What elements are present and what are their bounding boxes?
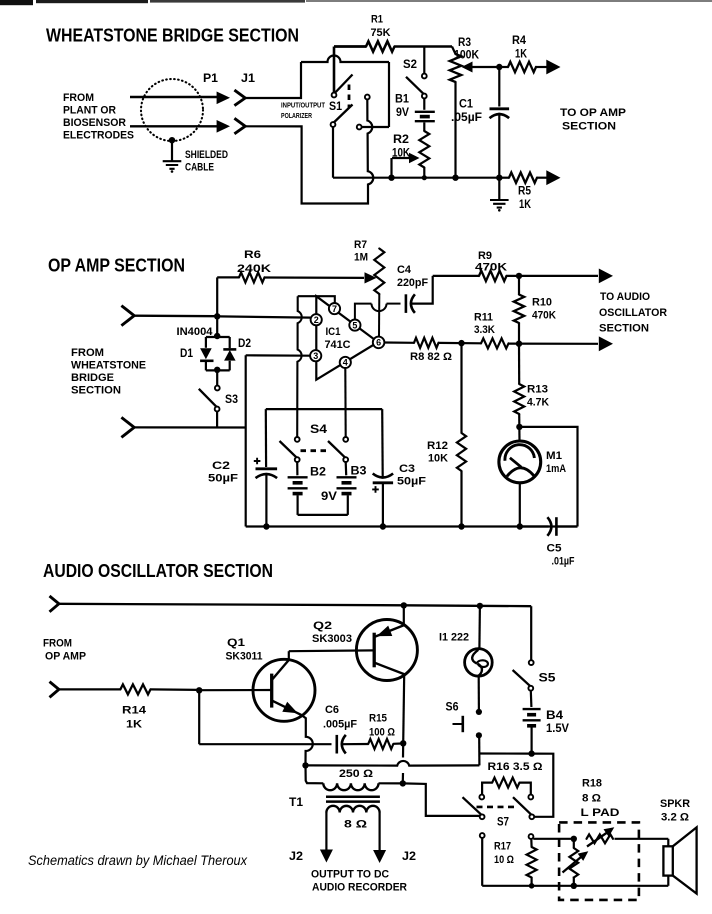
svg-text:R17: R17 <box>494 841 511 853</box>
wire R2 wiper to rail <box>390 158 392 176</box>
wire R3 bottom <box>454 82 456 178</box>
junction L pad bottom <box>571 883 577 889</box>
wire Q2 collector down <box>403 674 404 743</box>
svg-text:J1: J1 <box>241 73 256 85</box>
junction C3 rail <box>380 523 386 529</box>
resistor R15 100ohm <box>368 739 393 749</box>
wire polarizer top horiz with hop <box>301 56 389 63</box>
resistor R6 240K <box>239 272 265 282</box>
label R7 1M <box>354 239 368 264</box>
wire Q1 emitter drop <box>302 715 313 763</box>
capacitor C6 .005uF <box>337 735 346 754</box>
svg-text:1K: 1K <box>515 49 528 61</box>
svg-text:10K: 10K <box>392 148 411 160</box>
switch S1 pole1 <box>332 75 353 98</box>
wire Q2 col to T1 <box>402 743 405 781</box>
switch S3 <box>199 389 220 412</box>
wire pin4 drop <box>344 368 347 437</box>
label S5 <box>539 673 557 685</box>
battery B1 9V <box>415 112 435 121</box>
wire R16 right lead <box>520 783 531 795</box>
jack J1 lower contact <box>234 118 245 134</box>
label R11 3.3K <box>474 312 495 337</box>
resistor R9 470K <box>479 271 507 281</box>
wire pin5 riser <box>355 304 372 320</box>
svg-text:Schematics drawn by Michael Th: Schematics drawn by Michael Theroux <box>28 853 248 869</box>
label S3 <box>225 394 238 406</box>
wire upper jack to polarizer box <box>245 62 301 98</box>
svg-text:240K: 240K <box>237 263 271 275</box>
wire B2 bottom <box>297 495 299 515</box>
wire C3 top <box>381 409 384 476</box>
label R17 10ohm <box>494 841 514 867</box>
wire to R5 <box>499 177 509 179</box>
wire lamp bottom <box>478 676 480 709</box>
wire R13 top <box>518 344 520 384</box>
label D2 <box>238 338 251 350</box>
svg-text:R9: R9 <box>478 250 492 262</box>
label I1 222 <box>439 632 469 644</box>
battery bracket <box>298 514 348 516</box>
svg-text:R3: R3 <box>458 37 471 49</box>
wire pin6 out <box>384 341 414 343</box>
wire C2 top <box>265 409 268 467</box>
label 9V <box>321 491 337 503</box>
junction R12 rail <box>458 523 464 529</box>
junction diode top <box>214 333 220 339</box>
label S2 <box>403 59 417 71</box>
feedback line with hop over collector drop <box>306 761 480 766</box>
wire R17 top <box>530 839 532 847</box>
battery B2 <box>288 477 308 493</box>
resistor R8 82ohm <box>414 338 439 348</box>
credit text <box>28 853 248 869</box>
wire R1 rail right <box>395 45 453 48</box>
label B3 <box>351 466 367 478</box>
wire Q1 collector up <box>288 651 290 660</box>
svg-text:6: 6 <box>376 338 381 348</box>
arrow P1 lower <box>217 120 230 133</box>
svg-text:C3: C3 <box>399 463 415 475</box>
input chevron audio lower <box>50 682 59 698</box>
pin 4 <box>340 357 351 368</box>
bypass bracket C2-C3 <box>266 408 382 410</box>
svg-text:R5: R5 <box>518 186 532 198</box>
wire lower electrode input <box>130 125 218 127</box>
potentiometer R18a horizontal <box>587 827 615 846</box>
capacitor C1 .05uF <box>490 109 510 118</box>
svg-text:B3: B3 <box>351 466 367 478</box>
wire R6 riser <box>216 277 218 316</box>
wire S1 pole2 down <box>332 127 334 178</box>
wire terminal left down <box>481 838 483 886</box>
label D1 <box>180 348 194 360</box>
switch S1 pole2 <box>331 105 353 127</box>
svg-text:8 Ω: 8 Ω <box>344 819 367 831</box>
svg-text:SK3003: SK3003 <box>312 633 352 645</box>
label R16 3.5ohm <box>488 761 543 773</box>
resistor R4 <box>508 62 536 72</box>
svg-text:C5: C5 <box>547 543 562 555</box>
svg-text:250 Ω: 250 Ω <box>339 768 373 780</box>
svg-text:J2: J2 <box>402 851 416 863</box>
wire pin7 jog from left rail <box>298 296 335 303</box>
wire R12 riser <box>460 343 462 433</box>
contact S7 right throw <box>528 795 533 800</box>
svg-text:7: 7 <box>332 304 337 314</box>
speaker SPKR 3.2ohm <box>663 827 696 893</box>
arrow to audio osc upper <box>599 269 613 284</box>
svg-text:741C: 741C <box>325 339 351 351</box>
label C2 50uF <box>208 460 238 485</box>
wire meter bypass right <box>519 427 577 527</box>
arrow P1 upper <box>217 92 230 105</box>
junction B4 bottom <box>528 750 534 756</box>
terminal right <box>529 834 534 839</box>
wire R16 left lead <box>482 783 492 795</box>
pushbutton S6 plunger <box>453 716 463 732</box>
label R9 470K <box>475 250 507 274</box>
svg-text:D2: D2 <box>238 338 251 350</box>
label R2 10K <box>392 134 411 160</box>
wire J2 left lead <box>325 813 327 851</box>
wire pin3 feed <box>246 354 311 357</box>
section title: OP AMP SECTION <box>48 256 185 276</box>
wire emitter to T1 primary left <box>306 765 324 783</box>
wire C6 branch right <box>199 743 331 745</box>
wire base node to Q1 <box>201 689 272 691</box>
label R14 1K <box>122 705 147 731</box>
label C4 220pF <box>397 264 428 289</box>
label C3 50uF <box>397 463 426 488</box>
svg-text:4: 4 <box>343 358 348 368</box>
svg-text:FROM: FROM <box>63 92 94 104</box>
svg-text:R8 82 Ω: R8 82 Ω <box>410 351 452 363</box>
ground bridge <box>490 200 509 212</box>
contact S4b top <box>343 437 348 442</box>
transformer T1 primary 250ohm <box>323 783 378 790</box>
junction lamp rail <box>477 603 483 609</box>
junction out/R10/R13 <box>516 341 522 347</box>
svg-text:SECTION: SECTION <box>562 121 616 133</box>
label S4 <box>310 424 328 436</box>
label Q2 SK3003 <box>312 620 352 645</box>
wire S3 down <box>216 411 218 427</box>
arrow to op amp lower <box>546 170 560 185</box>
svg-text:50µF: 50µF <box>208 473 238 485</box>
wire S2 to B1 <box>423 98 425 110</box>
wire feedback riser to S6 <box>478 738 480 765</box>
wire C2 bottom <box>265 473 267 527</box>
svg-text:POLARIZER: POLARIZER <box>281 113 312 120</box>
wire S4b to B3 <box>345 462 348 475</box>
svg-text:S7: S7 <box>497 817 509 829</box>
svg-text:B1: B1 <box>395 94 410 106</box>
C3 plus sign <box>372 486 379 493</box>
wire S5 to B4 <box>530 691 533 708</box>
wire Q2 emitter up <box>403 605 405 625</box>
resistor R17 10ohm <box>527 847 537 878</box>
junction meter rail <box>517 523 523 529</box>
label R8 82ohm <box>410 351 452 363</box>
meter M1 1mA <box>499 441 541 483</box>
wire R8-R11 <box>439 342 482 345</box>
wire R10 top <box>518 276 520 295</box>
label C6 .005uF <box>323 704 357 731</box>
S7 mechanical link <box>477 806 517 809</box>
svg-text:D1: D1 <box>180 348 194 360</box>
wire C6 branch down <box>198 690 200 744</box>
svg-text:SHIELDED: SHIELDED <box>185 149 228 161</box>
svg-text:2: 2 <box>314 315 319 325</box>
transformer T1 secondary 8ohm <box>326 806 379 813</box>
contact S1 lower throw <box>357 125 362 130</box>
svg-text:50µF: 50µF <box>397 476 426 488</box>
junction diode bottom <box>214 367 220 373</box>
wire to C4 <box>387 303 401 305</box>
wire R5 to arrow <box>537 177 548 179</box>
wire B3 bottom <box>347 495 349 515</box>
svg-text:R6: R6 <box>244 249 261 261</box>
svg-text:S4: S4 <box>310 424 328 436</box>
svg-text:5: 5 <box>352 320 357 330</box>
capacitor C4 220pF <box>406 294 415 313</box>
junction Q2 emitter rail <box>401 602 407 608</box>
label 8 ohm <box>344 819 367 831</box>
wire lower to R14 <box>59 688 121 690</box>
label S1 <box>329 99 342 113</box>
svg-text:8 Ω: 8 Ω <box>582 793 601 805</box>
wire upper input <box>134 315 215 318</box>
wire R14 to base node <box>151 688 198 691</box>
wire C4 to corner <box>411 276 433 304</box>
resistor R11 3.3K <box>481 338 509 348</box>
wire lower input <box>134 426 246 428</box>
diode pair feed wire <box>216 316 218 334</box>
svg-text:R15: R15 <box>369 713 387 725</box>
wire R17 bottom <box>530 878 532 886</box>
label Q1 SK3011 <box>226 637 263 663</box>
resistor R16 3.5ohm <box>492 778 519 788</box>
junction Q1 emitter feedback <box>302 762 308 768</box>
label R13 4.7K <box>527 384 549 409</box>
svg-text:PLANT OR: PLANT OR <box>63 105 116 117</box>
label P1 <box>203 73 219 85</box>
terminal left <box>480 833 485 838</box>
svg-text:AUDIO RECORDER: AUDIO RECORDER <box>312 882 407 894</box>
wire to S1 lower throw <box>362 126 390 128</box>
label C1 .05uF <box>451 99 482 125</box>
diode D1 branch wire <box>205 337 207 348</box>
svg-text:IC1: IC1 <box>326 326 341 338</box>
resistor R13 4.7K <box>514 384 524 414</box>
svg-text:TO OP AMP: TO OP AMP <box>560 107 626 119</box>
svg-text:4.7K: 4.7K <box>527 397 549 409</box>
svg-text:.01µF: .01µF <box>552 556 575 568</box>
label S7 <box>497 817 509 829</box>
diode D1 <box>200 348 213 370</box>
wire upper throw down with hops <box>245 99 373 203</box>
wire T1 primary right <box>379 782 403 784</box>
section title: AUDIO OSCILLATOR SECTION <box>43 561 273 581</box>
label T1 <box>289 797 304 809</box>
svg-text:TO AUDIO: TO AUDIO <box>600 291 650 303</box>
resistor R5 <box>509 173 537 183</box>
shield drain wire <box>171 140 173 161</box>
svg-text:AUDIO OSCILLATOR SECTION: AUDIO OSCILLATOR SECTION <box>43 561 273 581</box>
shielded-cable dotted circle <box>141 79 203 141</box>
wire R13 to meter <box>518 414 520 441</box>
wire R9 right <box>507 275 599 277</box>
scan edge artifact (decorative) <box>0 0 712 5</box>
ground stem C1 <box>498 178 500 200</box>
wire C3 bottom <box>382 483 384 527</box>
pushbutton S6 bottom contact <box>476 732 482 738</box>
potentiometer R3 <box>450 54 462 82</box>
svg-text:1mA: 1mA <box>546 463 566 475</box>
svg-text:OP AMP: OP AMP <box>45 651 86 663</box>
wire meter bottom <box>519 483 521 527</box>
svg-text:M1: M1 <box>546 450 562 462</box>
wire R2 bottom <box>423 168 425 178</box>
pin 7 <box>329 303 340 314</box>
contact S5 top <box>529 660 534 665</box>
wire primary to S7 <box>403 783 480 816</box>
bottom rail of bridge <box>333 177 499 179</box>
wire R12 bottom <box>460 471 462 527</box>
svg-text:FROM: FROM <box>71 347 104 359</box>
svg-text:C2: C2 <box>212 460 230 472</box>
wire speaker top <box>667 839 669 847</box>
label IC1 741C <box>325 326 351 351</box>
wire R18b bottom <box>573 877 575 886</box>
arrow J2 left <box>320 850 333 863</box>
svg-text:Q2: Q2 <box>313 620 332 632</box>
label J1 <box>241 73 256 85</box>
arrow to op amp upper <box>546 60 560 75</box>
svg-text:C4: C4 <box>397 264 412 276</box>
svg-text:CABLE: CABLE <box>185 162 214 174</box>
svg-text:R10: R10 <box>532 297 552 309</box>
junction R9/R10 <box>516 273 522 279</box>
junction C1/bottom rail <box>496 175 502 181</box>
svg-text:1K: 1K <box>519 199 532 211</box>
svg-text:Q1: Q1 <box>227 637 245 649</box>
label IN4004 <box>177 326 214 338</box>
potentiometer R2 <box>419 131 429 168</box>
svg-text:B2: B2 <box>310 467 326 479</box>
wire R10 bottom <box>518 323 520 344</box>
wire lamp top <box>478 606 481 649</box>
svg-text:P1: P1 <box>203 73 219 85</box>
svg-text:C6: C6 <box>325 704 339 716</box>
svg-text:L PAD: L PAD <box>581 807 620 819</box>
diode D2 branch wire <box>229 337 231 348</box>
svg-text:470K: 470K <box>532 310 556 322</box>
battery B3 <box>337 477 357 493</box>
svg-text:J2: J2 <box>289 851 303 863</box>
R2 wiper arrow <box>392 153 420 163</box>
wire to S3 <box>216 370 218 385</box>
junction R2 wiper/bottom rail <box>388 175 394 181</box>
contact S7 left throw <box>479 795 484 800</box>
switch S4a arm <box>280 441 300 462</box>
wire R6 to R7 wiper <box>265 276 365 279</box>
wire B4 bottom <box>530 728 532 754</box>
wire B1 to R2 <box>423 123 425 132</box>
resistor R12 10K <box>457 433 466 471</box>
wire C5 right <box>556 525 577 527</box>
svg-text:R13: R13 <box>527 384 548 396</box>
label R5 1K <box>518 186 532 212</box>
junction Q2 collector T1 <box>400 780 406 786</box>
svg-text:S2: S2 <box>403 59 417 71</box>
svg-text:9V: 9V <box>321 491 337 503</box>
label TO AUDIO OSCILLATOR SECTION <box>599 291 667 335</box>
wire C6 to R15 <box>342 743 368 745</box>
R3 wiper arrow <box>462 62 499 73</box>
arrow to audio osc lower <box>599 336 613 351</box>
svg-text:.005µF: .005µF <box>323 719 357 731</box>
svg-text:R1: R1 <box>371 14 383 26</box>
wire supply to S7 right <box>532 754 554 817</box>
svg-text:470K: 470K <box>475 262 507 274</box>
jack J1 upper contact <box>234 90 245 106</box>
svg-text:SECTION: SECTION <box>599 323 649 335</box>
pin 5 <box>349 320 360 331</box>
wire input to pin2 <box>219 316 311 317</box>
resistor R14 1K <box>120 684 150 694</box>
svg-text:10 Ω: 10 Ω <box>494 854 514 866</box>
contact S4a top <box>295 437 300 442</box>
label R12 10K <box>427 440 448 465</box>
label 250 ohm <box>339 768 373 780</box>
label R6 240K <box>237 249 271 275</box>
wire R15 to junction <box>393 742 401 744</box>
wire S4a to B2 <box>296 462 298 475</box>
label SPKR 3.2ohm <box>660 798 690 824</box>
svg-text:1.5V: 1.5V <box>546 723 569 735</box>
junction R12 tap <box>458 340 464 346</box>
label B2 <box>310 467 326 479</box>
label R1 75K <box>371 14 391 40</box>
input chevron audio upper <box>50 596 59 612</box>
potentiometer R7 1M <box>374 249 384 295</box>
wire R4 to arrow <box>536 66 548 68</box>
svg-text:1K: 1K <box>126 719 142 731</box>
switch S5 arm <box>513 670 534 691</box>
svg-text:SK3011: SK3011 <box>226 651 263 663</box>
resistor R1 <box>366 41 395 51</box>
label B1 9V <box>395 94 410 120</box>
label OUTPUT TO DC AUDIO RECORDER <box>311 869 407 894</box>
wire to R4 <box>499 66 508 68</box>
pin 3 <box>310 350 321 361</box>
wire R1 rail left <box>334 45 366 48</box>
diode D2 <box>223 349 236 370</box>
S4 mechanical link <box>301 449 331 452</box>
transistor Q2 SK3003 <box>356 620 417 681</box>
label TO OP AMP SECTION <box>560 107 626 133</box>
pin5 line cup hop over R7 <box>372 304 387 312</box>
wire S1 pole1 from R1 rail <box>333 47 336 93</box>
wire R18a right <box>615 838 669 840</box>
svg-text:75K: 75K <box>371 27 391 39</box>
shield drain dot <box>169 137 175 143</box>
audio top rail <box>59 604 531 606</box>
svg-text:BRIDGE: BRIDGE <box>71 372 114 384</box>
label FROM OP AMP <box>43 638 86 663</box>
